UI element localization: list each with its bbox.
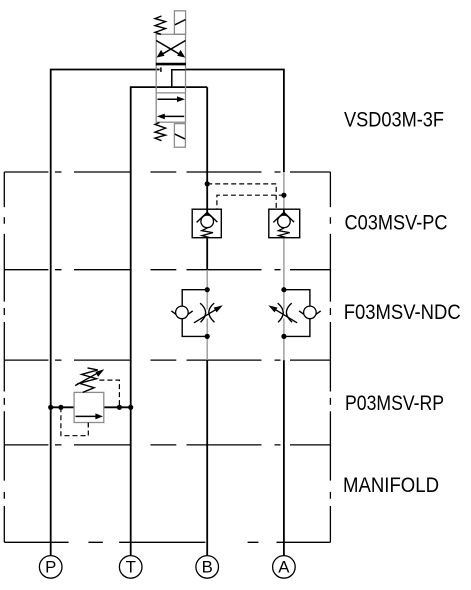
svg-text:A: A (278, 558, 290, 577)
svg-text:MANIFOLD: MANIFOLD (343, 474, 439, 497)
svg-text:P03MSV-RP: P03MSV-RP (345, 392, 444, 415)
svg-text:T: T (126, 558, 136, 577)
svg-text:B: B (202, 558, 213, 577)
svg-text:P: P (45, 558, 56, 577)
svg-text:C03MSV-PC: C03MSV-PC (345, 212, 448, 235)
svg-text:F03MSV-NDC: F03MSV-NDC (344, 301, 461, 324)
svg-text:VSD03M-3F: VSD03M-3F (344, 108, 444, 131)
